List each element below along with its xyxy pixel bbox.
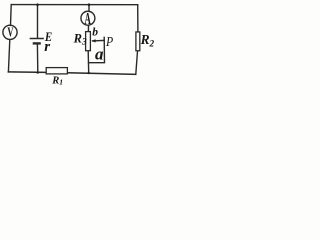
wire ammeter stub top bbox=[88, 5, 90, 12]
wiper arrow shaft P bbox=[93, 39, 105, 42]
svg-text:r: r bbox=[44, 39, 50, 55]
node battery bottom junction bbox=[37, 71, 39, 73]
wire top bus bbox=[11, 4, 138, 6]
wire left branch lower bbox=[8, 40, 9, 72]
svg-text:V: V bbox=[7, 26, 13, 40]
resistor R1 box bbox=[46, 68, 67, 74]
wire bottom bus right segment bbox=[68, 73, 136, 75]
wire left branch upper (to voltmeter) bbox=[10, 5, 13, 26]
node battery top junction bbox=[36, 3, 39, 6]
voltmeter V circle bbox=[3, 25, 17, 39]
wiper arrowhead bbox=[91, 39, 95, 42]
svg-text:P: P bbox=[105, 33, 113, 49]
svg-text:a: a bbox=[95, 45, 104, 64]
wire ammeter to R3 bbox=[87, 25, 89, 31]
wire R2 branch upper bbox=[137, 5, 139, 32]
wire battery branch lower bbox=[36, 44, 38, 72]
wire R2 bottom to corner bbox=[136, 51, 138, 74]
resistor R3 box bbox=[86, 32, 91, 51]
wire battery branch upper bbox=[37, 5, 39, 38]
node R3 bottom junction bbox=[88, 72, 90, 74]
battery cell short plate (E) bbox=[34, 42, 40, 44]
svg-text:R1: R1 bbox=[51, 76, 63, 87]
svg-text:b: b bbox=[92, 27, 98, 39]
svg-text:A: A bbox=[85, 9, 92, 28]
wire wiper loop from P down and left to node a bbox=[89, 37, 105, 62]
wire bottom bus left segment bbox=[8, 71, 46, 74]
resistor R2 box bbox=[136, 32, 140, 51]
battery cell long plate (E) bbox=[30, 38, 43, 40]
wire R3 bottom to bus bbox=[87, 51, 90, 73]
ammeter A circle bbox=[81, 11, 95, 25]
node ammeter top junction bbox=[88, 3, 91, 6]
